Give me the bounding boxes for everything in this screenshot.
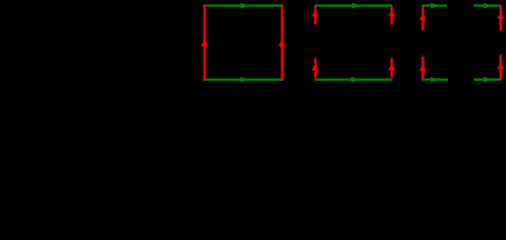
fig3 bottom-left red arrow up	[419, 56, 427, 78]
fig1 top edge green arrow right	[203, 3, 283, 9]
fig3 bottom-left green arrow right	[422, 77, 448, 83]
fig2 top edge green arrow right	[315, 3, 393, 9]
fig2 bottom-right red arrow up	[388, 58, 396, 78]
fig2 bottom-left red arrow up	[312, 58, 320, 78]
fig3 top-right green arrow right	[473, 3, 501, 9]
fig3 top-left green arrow right	[422, 3, 447, 9]
fig3 bottom-right red arrow up	[497, 55, 505, 80]
fig2 top-left red arrow up	[312, 6, 320, 24]
fig3 bottom-right green arrow right	[474, 77, 502, 83]
fig3 top-right red arrow up	[497, 6, 505, 31]
fig2 top-right red arrow up	[388, 6, 396, 24]
fig1 bottom edge green arrow right	[203, 77, 283, 83]
fig2 bottom edge green arrow right	[315, 77, 393, 83]
fig1 right edge red arrow up	[279, 5, 286, 81]
fig3 top-left red arrow up	[419, 6, 427, 30]
fig1 left edge red arrow up	[201, 5, 208, 81]
